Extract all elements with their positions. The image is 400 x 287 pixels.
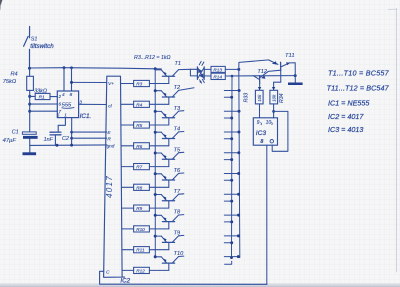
wire IC2 to R8 <box>122 186 134 188</box>
svg-text:R8: R8 <box>136 185 142 190</box>
wire IC2 to R12 <box>122 269 134 271</box>
wire emitter tap T10 <box>155 256 161 258</box>
wire IC2 to R10 <box>122 228 134 230</box>
svg-text:T1...T10 = BC557: T1...T10 = BC557 <box>328 69 390 78</box>
wire C2 to ground rail <box>54 135 56 145</box>
wire bus stub lower row 4 <box>224 138 231 140</box>
wire net to IC1 pin7 <box>30 110 58 112</box>
svg-text:47µF: 47µF <box>3 138 17 144</box>
svg-text:R: R <box>107 137 111 143</box>
wire IC2 pin C loop <box>100 271 267 284</box>
node feed/T4 <box>154 131 157 134</box>
op IC3 4013 box <box>253 118 277 145</box>
resistor R9 <box>134 205 150 211</box>
svg-text:T3: T3 <box>174 106 181 112</box>
wire LED to R13 <box>204 68 211 70</box>
node gnd/R tap <box>70 137 73 140</box>
wire IC2 to R5 <box>121 124 133 126</box>
node rail/C2 <box>56 144 59 147</box>
wire bus stub upper row 2 <box>224 90 239 92</box>
wire IC2 to R6 <box>121 145 133 147</box>
svg-text:R34: R34 <box>279 93 285 103</box>
svg-text:T5: T5 <box>174 147 181 153</box>
scan corner mark top-left <box>0 0 2 9</box>
wire IC1 pin3 output to IC2 clock <box>79 103 107 105</box>
svg-text:S1: S1 <box>31 37 38 43</box>
svg-text:C: C <box>106 269 110 275</box>
node busA row 9 <box>230 241 233 244</box>
transistor T7 <box>161 194 184 208</box>
wire to IC2 R pin <box>72 137 107 139</box>
wire emitter tap T4 <box>155 131 161 133</box>
node net/R1 <box>28 95 31 98</box>
svg-text:R4: R4 <box>11 72 18 78</box>
wire emitter tap T3 <box>155 110 161 112</box>
switch S1 wire top <box>29 27 31 38</box>
wire bus stub lower row 5 <box>224 159 231 161</box>
svg-text:R7: R7 <box>136 165 142 170</box>
transistor T10 <box>161 256 184 270</box>
svg-text:IC1 = NE555: IC1 = NE555 <box>328 98 370 107</box>
wire R33 to IC3 pin9 <box>259 104 261 118</box>
wire R4 to base <box>149 103 168 105</box>
svg-text:4: 4 <box>62 92 65 97</box>
svg-text:R10: R10 <box>136 227 145 232</box>
op IC2 4017 box <box>104 76 125 277</box>
svg-text:T10: T10 <box>174 251 185 257</box>
transistor T3 <box>161 111 184 125</box>
node busB row 10 <box>237 255 240 258</box>
wire IC2 V+ from pin8 vertical <box>72 81 107 83</box>
wire R8 to base <box>149 186 168 188</box>
svg-text:IC2: IC2 <box>120 278 130 285</box>
svg-text:IC1.: IC1. <box>80 113 92 120</box>
svg-text:R3: R3 <box>136 82 142 87</box>
node busA bottom <box>230 256 233 259</box>
wire bus stub upper row 5 <box>224 152 239 154</box>
capacitor C2 <box>50 131 61 133</box>
wire bus stub lower row 2 <box>224 96 231 98</box>
resistor R5 <box>134 122 150 128</box>
supply bar <box>288 83 303 86</box>
svg-text:10: 10 <box>266 120 272 126</box>
svg-text:T6: T6 <box>174 168 181 174</box>
resistor R13 <box>211 66 225 72</box>
svg-text:C1: C1 <box>12 130 19 136</box>
arrow into R33 <box>258 87 261 90</box>
wire emitter tap T8 <box>155 214 161 216</box>
node loop tap <box>272 110 275 113</box>
wire R5 to base <box>149 124 168 126</box>
wire to IC2 E pin <box>72 131 107 133</box>
wire bus stub lower row 7 <box>224 200 231 202</box>
wire IC2 to R11 <box>122 249 134 251</box>
wire +V top bus <box>30 68 162 69</box>
transistor T11 <box>272 61 290 70</box>
node busA row 8 <box>230 220 233 223</box>
wire busB top hook to T11 <box>239 60 278 70</box>
wire R14 to T11 emitter line <box>225 75 295 77</box>
switch S1 wire bottom <box>29 49 31 68</box>
wire IC1 pin4 to bus <box>63 68 65 91</box>
node busA row 2 <box>230 96 233 99</box>
node busB row 5 <box>237 151 240 154</box>
resistor R33 <box>255 90 263 104</box>
svg-text:gnd: gnd <box>107 143 115 148</box>
capacitor C1 plus plate <box>22 132 36 134</box>
svg-text:R33: R33 <box>243 93 249 103</box>
node feed/T8 <box>154 214 157 217</box>
wire R4 to C1 vertical net <box>29 90 31 131</box>
wire IC2 to R3 <box>121 83 134 85</box>
LED arrows bottom <box>200 79 205 83</box>
node busA row 3 <box>230 117 233 120</box>
svg-text:R9: R9 <box>136 206 142 211</box>
wire IC1 pin1 to ground rail <box>71 118 73 146</box>
svg-text:8: 8 <box>260 139 263 145</box>
svg-text:R13: R13 <box>213 67 222 72</box>
resistor R11 <box>134 247 150 253</box>
svg-text:T7: T7 <box>174 189 181 195</box>
op IC1 NE555 box <box>57 91 78 118</box>
arrow into R34 <box>272 87 275 90</box>
wire bus stub lower row 10 detached <box>225 261 232 264</box>
svg-text:IC3: IC3 <box>256 130 267 137</box>
wire emitter tap T2 <box>155 90 161 92</box>
node R14/T11 emitter <box>294 74 297 77</box>
svg-text:T1: T1 <box>175 61 182 67</box>
wire T12 base down to R33 <box>259 83 261 89</box>
wire T11 base down to R34 <box>274 71 281 90</box>
node net/pin7 <box>28 110 31 113</box>
svg-text:T9: T9 <box>174 231 181 237</box>
wire ground rail <box>30 144 107 147</box>
svg-text:T12: T12 <box>257 69 268 75</box>
wire busA <box>231 76 234 258</box>
svg-text:IC2 = 4017: IC2 = 4017 <box>328 112 364 121</box>
svg-text:1nF: 1nF <box>44 137 54 143</box>
wire T11 emitter to supply bar <box>290 63 296 83</box>
wire bus stub upper row 3 <box>224 110 239 112</box>
svg-text:5: 5 <box>57 113 60 118</box>
wire IC2 to R7 <box>122 166 134 168</box>
wire emitter tap T6 <box>155 173 161 175</box>
paper edge right <box>395 9 397 273</box>
wire IC3 pin8 down <box>266 145 268 284</box>
svg-text:555: 555 <box>62 102 72 108</box>
node busA row 6 <box>230 179 233 182</box>
transistor T2 <box>161 88 194 105</box>
transistor T8 <box>161 215 184 229</box>
node busB row 3 <box>238 110 241 113</box>
node feed/T5 <box>154 152 157 155</box>
svg-text:R4: R4 <box>136 102 142 107</box>
wire bus stub lower row 6 <box>224 179 231 181</box>
node pin8/V+ tap <box>70 81 73 84</box>
resistor R7 <box>134 164 150 170</box>
resistor R8 <box>134 184 150 190</box>
svg-text:10k: 10k <box>272 94 277 102</box>
wire emitter tap T1 <box>155 69 161 71</box>
svg-text:1: 1 <box>64 112 67 117</box>
resistor R10 <box>134 226 150 232</box>
node feed/T2 <box>154 89 157 92</box>
wire R34 to IC3 pin10 <box>273 104 275 118</box>
node busB row 9 <box>237 234 240 237</box>
wire bus to R4 <box>29 68 31 76</box>
resistor R3 <box>134 80 150 86</box>
wire IC1 pin8 to bus <box>71 68 73 91</box>
wire emitter tap T9 <box>155 235 161 237</box>
svg-text:33kΩ: 33kΩ <box>34 89 47 95</box>
wire IC2 to R4 <box>121 103 134 105</box>
wire R1 to IC1 pin2 <box>50 96 57 98</box>
svg-text:4017: 4017 <box>105 175 114 198</box>
transistor T4 <box>161 132 184 146</box>
transistor T12 <box>253 71 268 83</box>
wire R7 to base <box>149 166 168 168</box>
transistor T5 <box>161 152 184 166</box>
wire R11 to base <box>149 249 168 251</box>
svg-text:C2: C2 <box>62 136 69 142</box>
resistor R4 <box>134 101 150 107</box>
paper edge bottom shadow <box>0 283 400 287</box>
node busA row 5 <box>230 158 233 161</box>
resistor R6 <box>134 143 150 149</box>
node busB row 2 <box>238 89 241 92</box>
node feed/T9 <box>154 235 157 238</box>
wire busB <box>239 69 240 257</box>
svg-text:R12: R12 <box>136 268 145 273</box>
wire net to R1 <box>30 95 35 97</box>
node feed/T7 <box>154 193 157 196</box>
wire R13 to busB <box>225 68 239 70</box>
svg-text:75kΩ: 75kΩ <box>3 79 17 85</box>
svg-text:10k: 10k <box>257 94 262 102</box>
wire R6 to base <box>149 145 168 147</box>
wire bus stub lower row 9 <box>224 242 231 244</box>
wire emitter tap T5 <box>155 152 161 154</box>
wire IC2 to R9 <box>122 207 134 209</box>
node gnd/E tap <box>70 131 73 134</box>
node busB row 4 <box>237 131 240 134</box>
wire net to IC1 pin6 <box>30 103 58 105</box>
wire R12 to base <box>149 269 168 271</box>
wire feedback loop <box>272 111 288 151</box>
svg-text:2: 2 <box>58 94 62 99</box>
node busA row 4 <box>230 137 233 140</box>
svg-text:9: 9 <box>257 120 260 126</box>
wire bus stub upper row 7 <box>224 193 239 195</box>
transistor T9 <box>161 235 184 249</box>
wire emitter tap T7 <box>155 194 161 196</box>
wire T12 collector to T11 base <box>268 70 281 71</box>
node busA top <box>231 75 234 78</box>
node busB row 7 <box>237 193 240 196</box>
wire bus stub lower row 8 <box>224 221 231 223</box>
svg-text:R6: R6 <box>136 144 142 149</box>
svg-text:T8: T8 <box>174 210 181 216</box>
resistor R4 <box>27 76 34 90</box>
transistor T1 <box>161 69 190 83</box>
transistor T6 <box>161 173 184 187</box>
wire bus stub upper row 6 <box>224 173 239 175</box>
wire bus stub upper row 4 <box>224 131 239 133</box>
switch S1 lever <box>24 36 29 46</box>
wire bus stub upper row 9 <box>224 235 239 237</box>
svg-text:3: 3 <box>79 99 82 104</box>
svg-text:8: 8 <box>70 92 73 97</box>
wire emitter feed vertical <box>154 69 156 258</box>
node busB row 8 <box>237 214 240 217</box>
wire bus stub upper row 8 <box>224 214 239 216</box>
wire C1 to ground rail <box>29 139 31 146</box>
node busA row 7 <box>230 200 233 203</box>
ink speck <box>200 81 202 83</box>
resistor R34 <box>270 90 278 104</box>
svg-text:T4: T4 <box>174 127 181 133</box>
svg-text:T11...T12 = BC547: T11...T12 = BC547 <box>327 84 390 93</box>
svg-text:tiltswitch: tiltswitch <box>30 43 54 50</box>
LED pair D1 D2 antiparallel <box>197 67 204 80</box>
svg-text:T11: T11 <box>285 53 295 59</box>
wire R10 to base <box>149 228 168 230</box>
node R13/busB <box>237 68 240 71</box>
wire T1 collector to LED pair <box>190 69 197 76</box>
resistor R1 <box>35 93 50 99</box>
wire bus stub lower row 3 <box>224 117 231 119</box>
node bus/emitter feed <box>154 67 157 70</box>
svg-text:T2: T2 <box>174 85 181 91</box>
svg-text:V+: V+ <box>108 81 114 87</box>
node bus/IC1 pin4 <box>63 66 66 69</box>
wire R3 to base <box>149 83 168 85</box>
node feed/T10 <box>154 255 157 258</box>
node busB row 6 <box>237 172 240 175</box>
svg-text:R11: R11 <box>136 248 145 253</box>
pin mark o <box>270 140 273 143</box>
wire IC1 pin5 to C2 <box>58 118 65 132</box>
node feed/T3 <box>154 110 157 113</box>
ground symbol <box>29 145 31 152</box>
node feed/T6 <box>154 172 157 175</box>
wire R9 to base <box>149 207 168 209</box>
node rail/IC1 pin1 <box>70 144 73 147</box>
node bus/IC1 pin8 <box>70 66 73 69</box>
wire LED to R14 <box>204 75 211 77</box>
capacitor C1 minus plate <box>23 136 38 139</box>
node bus/switch/R4 <box>28 67 31 70</box>
svg-text:IC3 = 4013: IC3 = 4013 <box>328 125 363 134</box>
resistor R12 <box>134 267 150 273</box>
wire bus stub upper row 10 <box>224 256 239 258</box>
resistor R14 <box>211 73 225 79</box>
svg-text:R5: R5 <box>136 123 142 128</box>
node net/pin6 <box>28 103 31 106</box>
svg-text:R3...R12 = 1kΩ: R3...R12 = 1kΩ <box>134 55 171 61</box>
svg-text:R14: R14 <box>213 74 222 79</box>
svg-text:R1: R1 <box>39 94 45 100</box>
LED arrows top <box>199 61 204 65</box>
